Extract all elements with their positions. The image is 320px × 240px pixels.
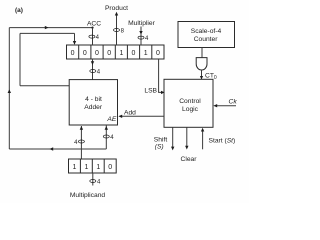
svg-text:0: 0 bbox=[108, 164, 112, 171]
svg-text:(a): (a) bbox=[15, 7, 23, 14]
svg-text:Counter: Counter bbox=[194, 36, 219, 43]
svg-text:(S): (S) bbox=[155, 143, 164, 150]
svg-text:Product: Product bbox=[105, 5, 128, 12]
register ACC/Multiplier (8-cell product register) bbox=[67, 45, 165, 59]
wire ACC load input (junction to register top) bbox=[92, 28, 94, 45]
svg-text:LSB: LSB bbox=[144, 88, 157, 95]
svg-text:1: 1 bbox=[144, 50, 148, 57]
svg-text:Start (St): Start (St) bbox=[209, 138, 236, 145]
wire multiplier load input bbox=[140, 27, 142, 46]
wire feedback outer left segment bbox=[8, 28, 10, 149]
svg-text:ACC: ACC bbox=[87, 21, 101, 28]
wire feedback outer top segment bbox=[9, 27, 92, 29]
arrowhead up at adder sum port bbox=[105, 126, 108, 130]
wire Start input bbox=[202, 131, 204, 150]
svg-text:1: 1 bbox=[119, 50, 123, 57]
svg-text:Adder: Adder bbox=[84, 104, 103, 111]
gate G1 (AND gate, pointing down) bbox=[196, 58, 207, 70]
svg-text:Add: Add bbox=[124, 110, 136, 117]
wire carry loop drop into register MSB bbox=[74, 33, 76, 44]
junction node at ACC input bbox=[91, 27, 93, 29]
bus marker 4 on ACC output wire bbox=[90, 69, 101, 75]
register ACC/Multiplier cell values 0 0 0 0 1 0 1 0 bbox=[71, 50, 160, 57]
svg-text:4 - bit: 4 - bit bbox=[85, 96, 102, 103]
wire adder sum output down bbox=[105, 125, 107, 149]
wire carry loop inner left segment bbox=[19, 33, 21, 85]
svg-text:Ck: Ck bbox=[229, 98, 238, 105]
register Multiplicand (4-cell) bbox=[69, 159, 117, 173]
arrowhead up on outer left wire bbox=[8, 89, 11, 93]
adder U1 (4-bit Adder) bbox=[69, 80, 117, 125]
svg-text:Control: Control bbox=[179, 98, 201, 105]
svg-text:Logic: Logic bbox=[182, 106, 199, 113]
arrowhead down Clear bbox=[185, 146, 188, 150]
arrowhead left into adder bbox=[118, 115, 122, 118]
arrowhead down Shift bbox=[171, 147, 174, 151]
bus marker 4 on multiplicand load stub bbox=[90, 179, 101, 185]
wire carry loop inner top segment bbox=[20, 32, 75, 34]
register Multiplicand cell values 1 1 1 0 bbox=[72, 164, 112, 171]
arrowhead down multiplier bbox=[139, 31, 142, 35]
wire gate output CT0 to control logic bbox=[201, 70, 203, 79]
wire Clear output bbox=[186, 127, 188, 146]
svg-text:AE: AE bbox=[106, 116, 116, 123]
svg-text:1: 1 bbox=[96, 164, 100, 171]
wire Add control to adder AE bbox=[120, 115, 165, 117]
wire counter to gate bbox=[201, 48, 203, 58]
bus marker 4 on ACC input wire bbox=[89, 35, 100, 41]
svg-text:0: 0 bbox=[107, 50, 111, 57]
svg-text:Scale-of-4: Scale-of-4 bbox=[191, 28, 222, 35]
svg-text:1: 1 bbox=[72, 164, 76, 171]
svg-text:Shift: Shift bbox=[154, 136, 168, 143]
arrowhead up Start bbox=[201, 128, 204, 132]
wire LSB from register to control logic bbox=[159, 59, 163, 92]
wire feedback outer bottom segment bbox=[9, 148, 106, 150]
bus marker 8 on product wire bbox=[114, 28, 125, 34]
svg-text:Multiplicand: Multiplicand bbox=[70, 192, 106, 199]
svg-text:Multiplier: Multiplier bbox=[128, 20, 156, 27]
wire product output bbox=[116, 14, 118, 45]
wire Ck input bbox=[215, 105, 237, 107]
svg-text:0: 0 bbox=[156, 50, 160, 57]
bus marker 4 on multiplicand wire bbox=[74, 140, 84, 146]
counter U3 (Scale-of-4 Counter) bbox=[178, 22, 235, 48]
svg-text:1: 1 bbox=[84, 164, 88, 171]
arrowhead down below register bbox=[91, 61, 94, 65]
control logic U2 bbox=[164, 79, 213, 127]
arrowhead left on outer bottom wire bbox=[49, 147, 53, 150]
bus marker 4 on multiplier wire bbox=[138, 36, 149, 42]
arrowhead up into adder bbox=[80, 126, 83, 130]
wire Shift output bbox=[172, 127, 174, 147]
svg-text:0: 0 bbox=[132, 50, 136, 57]
arrowhead down into register MSB bbox=[73, 41, 76, 45]
svg-text:0: 0 bbox=[71, 50, 75, 57]
svg-text:0: 0 bbox=[95, 50, 99, 57]
arrowhead up product bbox=[115, 12, 118, 16]
wire multiplicand to adder B input bbox=[80, 126, 82, 159]
svg-text:Clear: Clear bbox=[181, 156, 198, 163]
arrowhead right into control logic bbox=[161, 91, 165, 94]
bus marker 4 on sum wire bbox=[103, 135, 114, 141]
arrowhead left into control logic bbox=[213, 104, 217, 107]
svg-text:0: 0 bbox=[83, 50, 87, 57]
wire multiplicand load stub bbox=[92, 173, 94, 186]
wire ACC output to adder A input bbox=[92, 59, 94, 80]
arrowhead down into control logic bbox=[200, 76, 203, 80]
wire carry loop inner bottom segment (adder left side) bbox=[20, 85, 69, 87]
arrowhead right on outer top wire bbox=[45, 26, 49, 29]
